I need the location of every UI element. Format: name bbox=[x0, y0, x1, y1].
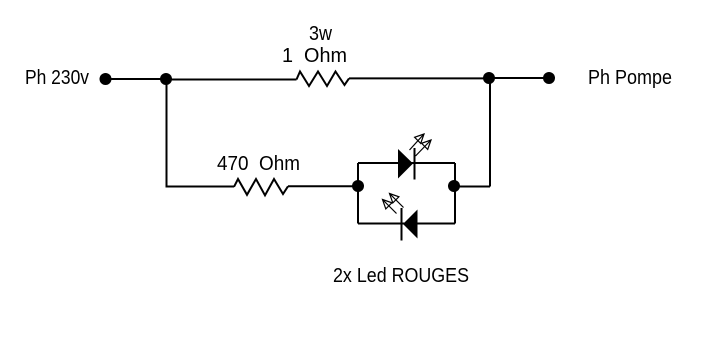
junction node C bbox=[483, 72, 495, 84]
node E left of LED pair bbox=[352, 180, 364, 192]
svg-text:1 Ohm: 1 Ohm bbox=[282, 45, 347, 67]
junction node B bbox=[160, 73, 172, 85]
wire junction B down bbox=[166, 79, 168, 187]
svg-text:3w: 3w bbox=[309, 23, 332, 45]
wire resistor R2 to node E bbox=[288, 185, 358, 187]
terminal node Ph 230v bbox=[100, 73, 112, 85]
LED D1 cathode bar bbox=[414, 148, 416, 180]
wire resistor R1 to junction C bbox=[349, 77, 489, 79]
wire junction B to resistor R1 bbox=[166, 79, 297, 81]
wire LED box bottom bbox=[358, 223, 455, 225]
svg-text:470 Ohm: 470 Ohm bbox=[217, 153, 300, 175]
wire input to junction B bbox=[105, 78, 166, 80]
wire LED box left vertical bbox=[357, 163, 359, 224]
LED D2 emission arrow 2 bbox=[383, 200, 397, 214]
wire junction C to output terminal bbox=[489, 77, 549, 79]
resistor R1 1 Ohm 3w bbox=[297, 72, 350, 87]
wire right vertical up to junction C bbox=[489, 78, 491, 186]
svg-text:Ph 230v: Ph 230v bbox=[25, 67, 89, 89]
LED D2 emission arrow 1 bbox=[390, 194, 404, 208]
LED D2 bottom triangle bbox=[403, 210, 418, 239]
wire LED box right vertical bbox=[454, 163, 456, 224]
svg-text:Ph Pompe: Ph Pompe bbox=[588, 67, 672, 89]
LED D1 emission arrow 2 bbox=[416, 140, 432, 156]
LED D1 emission arrow 1 bbox=[410, 134, 425, 150]
LED D2 cathode bar bbox=[401, 208, 403, 241]
node F right of LED pair bbox=[448, 180, 460, 192]
wire LED box top bbox=[358, 162, 455, 164]
LED D1 top triangle bbox=[398, 149, 413, 179]
resistor R2 470 Ohm bbox=[234, 179, 288, 195]
svg-text:2x Led ROUGES: 2x Led ROUGES bbox=[333, 265, 469, 287]
terminal node Ph Pompe bbox=[543, 72, 555, 84]
wire corner to resistor R2 bbox=[166, 186, 235, 188]
wire node F to right corner bbox=[454, 186, 490, 188]
